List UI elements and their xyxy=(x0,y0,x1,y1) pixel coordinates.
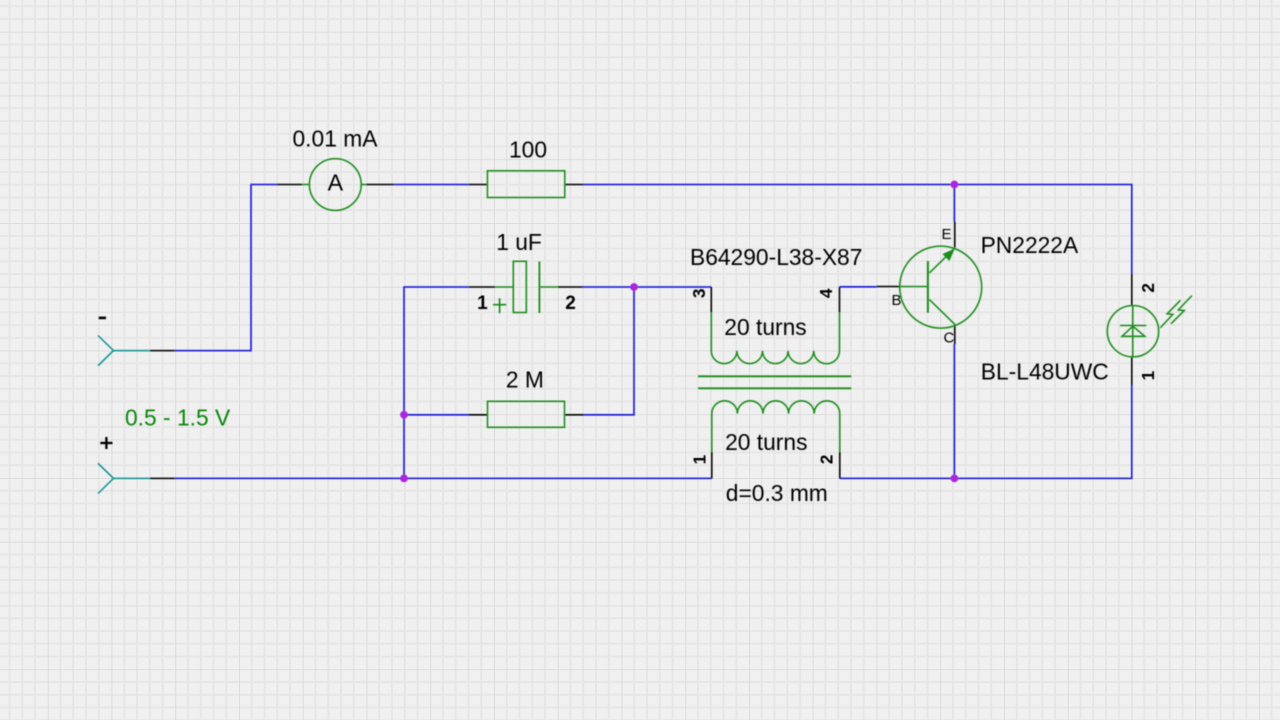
label minus xyxy=(99,317,106,320)
terminal J2 plus (teal chevron) xyxy=(98,463,150,493)
transformer T1 pin4 lead (black) xyxy=(839,287,841,313)
svg-text:0.5 - 1.5 V: 0.5 - 1.5 V xyxy=(125,405,231,431)
resistor R1 right pin lead (black) xyxy=(565,184,584,186)
svg-text:20 turns: 20 turns xyxy=(724,314,806,340)
svg-text:B64290-L38-X87: B64290-L38-X87 xyxy=(690,244,862,270)
resistor R2 2M xyxy=(488,401,565,427)
svg-text:2: 2 xyxy=(1138,283,1158,293)
resistor R2 right pin lead (black) xyxy=(565,414,584,416)
svg-text:2: 2 xyxy=(565,293,576,314)
junction node R2 left xyxy=(400,411,408,419)
svg-text:1: 1 xyxy=(477,293,488,314)
ammeter P1 right pin lead (black) xyxy=(366,184,394,186)
transistor emitter arrow xyxy=(942,249,954,261)
svg-text:A: A xyxy=(328,170,344,196)
ammeter P1 left pin lead (black) xyxy=(278,184,303,186)
transformer T1 primary winding xyxy=(711,313,839,364)
transistor Q1 emitter lead (black) xyxy=(954,222,956,248)
transformer T1 pin1 lead (black) xyxy=(711,452,713,479)
svg-text:C: C xyxy=(944,329,955,346)
wire: transformer pin4 to transistor base xyxy=(840,286,877,288)
svg-text:1 uF: 1 uF xyxy=(496,229,542,255)
capacitor C1 pin2 lead (black) xyxy=(558,286,583,288)
svg-text:B: B xyxy=(892,292,902,309)
terminal J2 pin lead (black) xyxy=(150,477,175,479)
resistor R1 left pin lead (black) xyxy=(469,184,487,186)
wire: capacitor right to transformer pin3 xyxy=(583,286,712,288)
wire: minus terminal to ammeter (blue segments) xyxy=(175,185,278,351)
svg-text:20 turns: 20 turns xyxy=(725,429,807,455)
wire: R1 to top-right corner and down to LED xyxy=(584,185,1132,274)
junction node cap right xyxy=(630,283,638,291)
svg-text:1: 1 xyxy=(689,454,709,464)
svg-text:2 M: 2 M xyxy=(506,367,544,393)
LED light arrow 1 xyxy=(1160,300,1180,328)
svg-text:PN2222A: PN2222A xyxy=(981,232,1079,258)
transformer T1 core xyxy=(698,376,851,388)
LED D1 bottom lead (black) xyxy=(1131,357,1133,385)
transistor Q1 base lead (black) xyxy=(877,286,900,288)
transistor Q1 collector lead (black) xyxy=(954,325,956,345)
transformer T1 secondary winding xyxy=(712,401,840,452)
terminal J1 pin lead (black) xyxy=(150,350,175,352)
capacitor C1 pin1 lead (black) xyxy=(469,286,495,288)
svg-text:1: 1 xyxy=(1138,370,1158,380)
junction node bottom rail / collector xyxy=(951,475,959,483)
svg-text:2: 2 xyxy=(816,455,836,465)
transformer T1 pin3 lead (black) xyxy=(710,287,712,313)
label plus xyxy=(100,437,112,449)
LED light arrow 2 xyxy=(1171,296,1192,324)
svg-text:100: 100 xyxy=(509,136,547,162)
svg-text:BL-L48UWC: BL-L48UWC xyxy=(981,359,1109,385)
transistor Q1 PN2222A xyxy=(899,246,981,328)
svg-text:d=0.3 mm: d=0.3 mm xyxy=(726,480,828,506)
wire: R2 left lead to vertical xyxy=(404,414,469,416)
wire: collector down to bottom rail xyxy=(953,344,955,478)
terminal J1 minus (teal chevron) xyxy=(98,336,150,366)
svg-text:4: 4 xyxy=(816,288,836,298)
resistor R1 100 xyxy=(487,171,564,198)
transformer T1 pin2 lead (black) xyxy=(839,452,841,479)
wire: LED bottom to bottom-right corner xyxy=(840,385,1132,478)
ammeter P1 xyxy=(302,159,366,211)
capacitor C1 1uF polarized xyxy=(493,261,558,313)
LED D1 top lead (black) xyxy=(1131,274,1133,306)
svg-text:E: E xyxy=(942,226,952,243)
junction node bottom left vertical xyxy=(400,475,408,483)
junction node top rail / emitter xyxy=(951,181,959,189)
LED D1 BL-L48UWC xyxy=(1107,306,1158,358)
wire: emitter up to top rail xyxy=(953,185,955,222)
wire: ammeter to R1 xyxy=(394,184,469,186)
svg-text:0.01 mA: 0.01 mA xyxy=(293,125,379,151)
wire: capacitor net left vertical xyxy=(404,287,469,478)
resistor R2 left pin lead (black) xyxy=(469,414,488,416)
wire: plus terminal to transformer pin1 xyxy=(175,477,712,479)
wire: cap junction down to R2 right lead xyxy=(584,287,634,415)
svg-text:3: 3 xyxy=(689,289,709,299)
